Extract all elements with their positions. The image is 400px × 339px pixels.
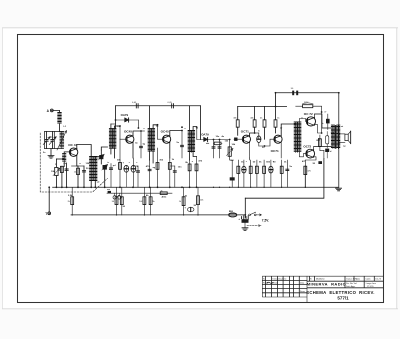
drawing frame border (18, 35, 384, 303)
coupling coil secondary (63, 154, 65, 162)
oscillator coil primary (90, 156, 92, 180)
antenna coil adjust arrow (57, 131, 67, 151)
transistor OC71 second driver (274, 135, 282, 143)
emitter resistor IF1 (132, 158, 134, 187)
svg-text:OC 44: OC 44 (68, 143, 77, 147)
terminal A (50, 109, 53, 112)
IF transformer T1 core (111, 129, 113, 148)
IF transformer T3 left winding (189, 131, 191, 153)
svg-text:Lungo f.mo: Lungo f.mo (366, 283, 377, 285)
svg-text:tr: tr (108, 161, 110, 164)
wire OC45a collector to IFT2 (133, 131, 141, 136)
output transformer core (335, 125, 337, 149)
svg-text:OC72: OC72 (303, 144, 311, 148)
emitter resistor IF2 (169, 158, 171, 187)
wire output stage to feed line (323, 151, 325, 159)
AF electrolytic B (243, 160, 245, 187)
electrolytic E1 (125, 166, 127, 188)
capacitor C4 on rail (136, 104, 138, 108)
feedback top wire (276, 92, 339, 94)
wire IF supply rail (116, 105, 201, 107)
svg-text:AGC: AGC (162, 196, 167, 199)
wire trimmer to IFT1 (101, 147, 107, 150)
trimmer capacitor blob 1 (99, 155, 103, 159)
svg-text:OC45: OC45 (124, 130, 132, 134)
jack circles (113, 196, 116, 199)
diode blob lower (325, 149, 329, 152)
svg-text:MINERVA RADIO: MINERVA RADIO (307, 282, 347, 287)
svg-text:OC 72: OC 72 (304, 112, 313, 116)
resistor R15 emitter (304, 166, 306, 187)
revision table columns (264, 276, 266, 297)
wire OC72a emitter (314, 125, 321, 133)
wire secondary bottom down (63, 161, 65, 166)
wire OC45a base (119, 126, 121, 139)
svg-text:Denominazione: Denominazione (273, 278, 288, 280)
oscillator coil secondary (94, 156, 96, 180)
svg-text:det: det (206, 142, 210, 145)
resistor below bus 2 (116, 187, 118, 215)
detector series resistor R (214, 142, 221, 145)
capacitor C2 (83, 166, 85, 187)
wire battery feed vertical (244, 198, 246, 217)
electrolytic across output (326, 132, 328, 136)
svg-text:OA79: OA79 (201, 132, 209, 136)
revision table rows (262, 279, 307, 281)
IF transformer T1 right winding (113, 129, 115, 149)
svg-text:2k: 2k (161, 191, 163, 193)
wire secondary bus (107, 192, 172, 194)
wire transformer to speaker top (338, 133, 345, 135)
IF transformer T2 right winding (152, 129, 154, 152)
terminal T wire (48, 187, 50, 212)
IFT1 leads (110, 124, 112, 129)
resistor below bus 6 (183, 187, 185, 215)
wire OC72a collector to output transformer (314, 114, 331, 128)
misc tiny value labels (43, 116, 346, 212)
svg-text:Dis. No. Val.: Dis. No. Val. (346, 283, 357, 285)
svg-text:OC71: OC71 (241, 130, 249, 134)
IFT3 leads (189, 106, 191, 131)
resistor below bus 5 (150, 187, 152, 215)
dashed arrow lower (247, 225, 261, 227)
wire OC44 collector right (77, 145, 91, 157)
volume-style pot P1 (55, 159, 57, 167)
AGC resistor (149, 160, 151, 187)
loudspeaker (345, 134, 348, 140)
wire rail right drop to detector (200, 106, 202, 140)
wire blob to bus (326, 152, 328, 158)
neutralizing cap C7 (181, 131, 183, 159)
title block outline (262, 275, 383, 277)
wire secondary top to OC44 base (64, 152, 69, 154)
junction dots bottom (56, 186, 58, 188)
battery ground (244, 223, 246, 228)
resistor R2 (77, 166, 79, 187)
wire OC71a emitter down (249, 142, 251, 158)
svg-text:+: + (238, 217, 240, 221)
svg-text:Dis. N: Dis. N (376, 278, 382, 280)
resistor below bus 4 (143, 187, 145, 215)
resistor below bus 3 (121, 187, 123, 215)
detector filter cap C8 (213, 140, 215, 159)
svg-text:10n: 10n (216, 136, 220, 138)
driver transformer secondary winding (298, 122, 300, 153)
capacitor C5 on rail (172, 104, 174, 108)
wire OC45b collector to IFT3 (170, 131, 182, 137)
oscillator coil leads (90, 181, 92, 188)
svg-text:tr: tr (301, 116, 303, 119)
wire OC45a emitter down (132, 142, 134, 158)
wire OC72b collector to output transformer (314, 147, 332, 151)
wire driver sec top to OC72a base (299, 119, 307, 122)
AF resistor C (250, 160, 252, 187)
wire AF supply rail (238, 106, 287, 108)
terminal T (48, 212, 51, 215)
paper bottom edge (2, 308, 398, 310)
resistor R10 from AF rail (237, 107, 239, 120)
wire IFT3 secondary top to diode line (196, 127, 198, 140)
IF transformer T2 core (150, 129, 152, 151)
svg-text:Contr.: Contr. (366, 277, 372, 280)
wire OC71b emitter down (280, 142, 282, 158)
wire rail left drop (115, 106, 117, 129)
svg-text:Dett. Appr.: Dett. Appr. (346, 285, 356, 288)
electrolytic E2 (131, 165, 136, 172)
diode OA79 AGC (116, 119, 139, 121)
wire feed line to output stage (245, 159, 324, 199)
svg-text:vol: vol (230, 160, 234, 162)
svg-text:sw: sw (107, 189, 110, 191)
transistor OC45 first (126, 135, 134, 143)
switch arrow (256, 214, 261, 216)
AGC line resistor (160, 192, 167, 195)
detector filter cap C9 (219, 140, 221, 159)
wire from A to rod coil (53, 110, 59, 112)
wire AF rail up to feedback line (275, 93, 277, 107)
IF transformer T1 left winding (110, 129, 112, 149)
wire OC71b collector to driver transformer (281, 124, 296, 136)
IF transformer T2 left winding (149, 129, 151, 152)
resistor R13 from AF rail (275, 107, 277, 120)
battery B1 (242, 216, 249, 220)
coupling electrolytic C11 (255, 132, 259, 134)
neutralizing cap C6 (140, 131, 142, 158)
tuned circuit top wire (45, 131, 64, 133)
resistor R11 from AF rail (254, 107, 256, 120)
AF cap H (286, 160, 288, 187)
wire diode node down (137, 120, 139, 128)
battery junction (244, 214, 246, 216)
wire C11 to OC71b base (259, 139, 275, 146)
base resistor IF2 (157, 148, 159, 187)
output transformer right winding (337, 125, 339, 149)
ground at bus right end (336, 188, 342, 191)
svg-text:Modifiche: Modifiche (316, 278, 325, 280)
fuse resistor on bottom rail (229, 214, 236, 217)
transistor OC72 second (306, 149, 315, 158)
svg-text:10n: 10n (178, 166, 182, 168)
IFT3 bottom resistor (189, 160, 191, 187)
AF resistor A (237, 160, 239, 187)
variable capacitor CV1 (46, 132, 48, 140)
wire transformer to speaker bottom (338, 142, 345, 144)
volume potentiometer (229, 140, 231, 159)
electrolytic below bus (190, 207, 192, 215)
bias resistor output (319, 135, 321, 151)
driver transformer core (296, 122, 298, 152)
variable capacitor CV2 (52, 132, 54, 140)
wire rod coil to tuned circuit (59, 124, 61, 132)
AF resistor D (256, 160, 258, 187)
wire OC45b base (157, 125, 159, 139)
transistor OC71 first (242, 135, 250, 143)
thermistor blob under OC72b (318, 161, 322, 164)
base resistor IF1 (119, 139, 121, 187)
padder capacitor (110, 164, 112, 188)
oscillator coil core (92, 157, 94, 181)
wire bottom rail (71, 214, 245, 216)
svg-text:dr: dr (280, 127, 282, 129)
title block inner rows (307, 280, 383, 282)
trimmer capacitor blob 2 (103, 165, 107, 170)
capacitor C1 (66, 163, 68, 187)
wire OC72b emitter down (305, 157, 316, 166)
transistor OC72 first (306, 117, 315, 126)
bypass cap IF1 (137, 166, 139, 187)
wire driver sec bottom to OC72b base (299, 153, 306, 157)
resistor R12 from AF rail (264, 107, 266, 120)
diode OA79 detector (197, 139, 230, 141)
wire ground bus (53, 186, 339, 188)
AF resistor E (263, 160, 265, 187)
junction dots output (321, 111, 323, 113)
paper right edge (396, 28, 398, 309)
svg-text:ot: ot (341, 125, 343, 128)
on-off switch (249, 214, 251, 216)
svg-text:7,5V.: 7,5V. (262, 219, 269, 223)
IF transformer T3 core (190, 131, 192, 152)
transistor OC44 (69, 148, 77, 156)
resistor below bus 1 (71, 187, 73, 215)
volume pot body lower (231, 160, 233, 187)
driver transformer primary winding (295, 122, 297, 153)
wire OC71a collector (250, 133, 255, 136)
wire OC44 emitter down (76, 155, 78, 166)
tuned circuit ground (50, 149, 52, 156)
paper top edge (2, 27, 398, 29)
wire oscillator top link (95, 157, 101, 161)
tuned circuit bottom wire (45, 148, 64, 150)
svg-text:T: T (45, 212, 47, 216)
antenna coil winding (61, 132, 63, 149)
wire IFT1 top to rail drop (111, 123, 116, 125)
NTC resistor on OC72 bias (296, 105, 303, 107)
title block header columns (309, 276, 311, 281)
bypass cap IF2 (174, 166, 176, 187)
paper left edge (2, 28, 4, 309)
svg-text:OA79: OA79 (121, 113, 129, 117)
svg-text:17.3.55: 17.3.55 (367, 286, 375, 288)
svg-text:577/1: 577/1 (337, 295, 349, 300)
series capacitor C10 on top wire (292, 91, 294, 96)
svg-text:NTC: NTC (304, 102, 309, 104)
junction dots IF (115, 119, 117, 121)
AF resistor G (281, 160, 283, 187)
tuned circuit side wires (44, 132, 46, 149)
wire OC44 emitter to R2 (72, 165, 79, 167)
svg-text:OC71: OC71 (271, 149, 279, 153)
wire pot top to secondary (56, 158, 64, 160)
ferrite rod coil L1 (58, 113, 61, 124)
AF electrolytic F (270, 160, 272, 187)
svg-text:OC45: OC45 (161, 130, 169, 134)
wire output stage feed drop (338, 93, 340, 188)
IFT2 leads (149, 106, 151, 129)
wire OC45b emitter down (169, 142, 171, 158)
signature scribble (267, 282, 274, 283)
resistor below bus 7 (197, 187, 199, 215)
bias diode network (321, 112, 323, 133)
output transformer left winding (332, 125, 334, 149)
cap on secondary bus (108, 189, 110, 193)
IF transformer T3 right winding (192, 131, 194, 153)
wire volume wiper to OC71a base (234, 138, 244, 140)
resistor R1 (61, 166, 63, 187)
transistor OC45 second (163, 135, 171, 143)
dashed tuning gang link (40, 133, 107, 192)
detector load resistor (196, 157, 198, 188)
wires AF emitters to bottom parts (249, 158, 251, 160)
